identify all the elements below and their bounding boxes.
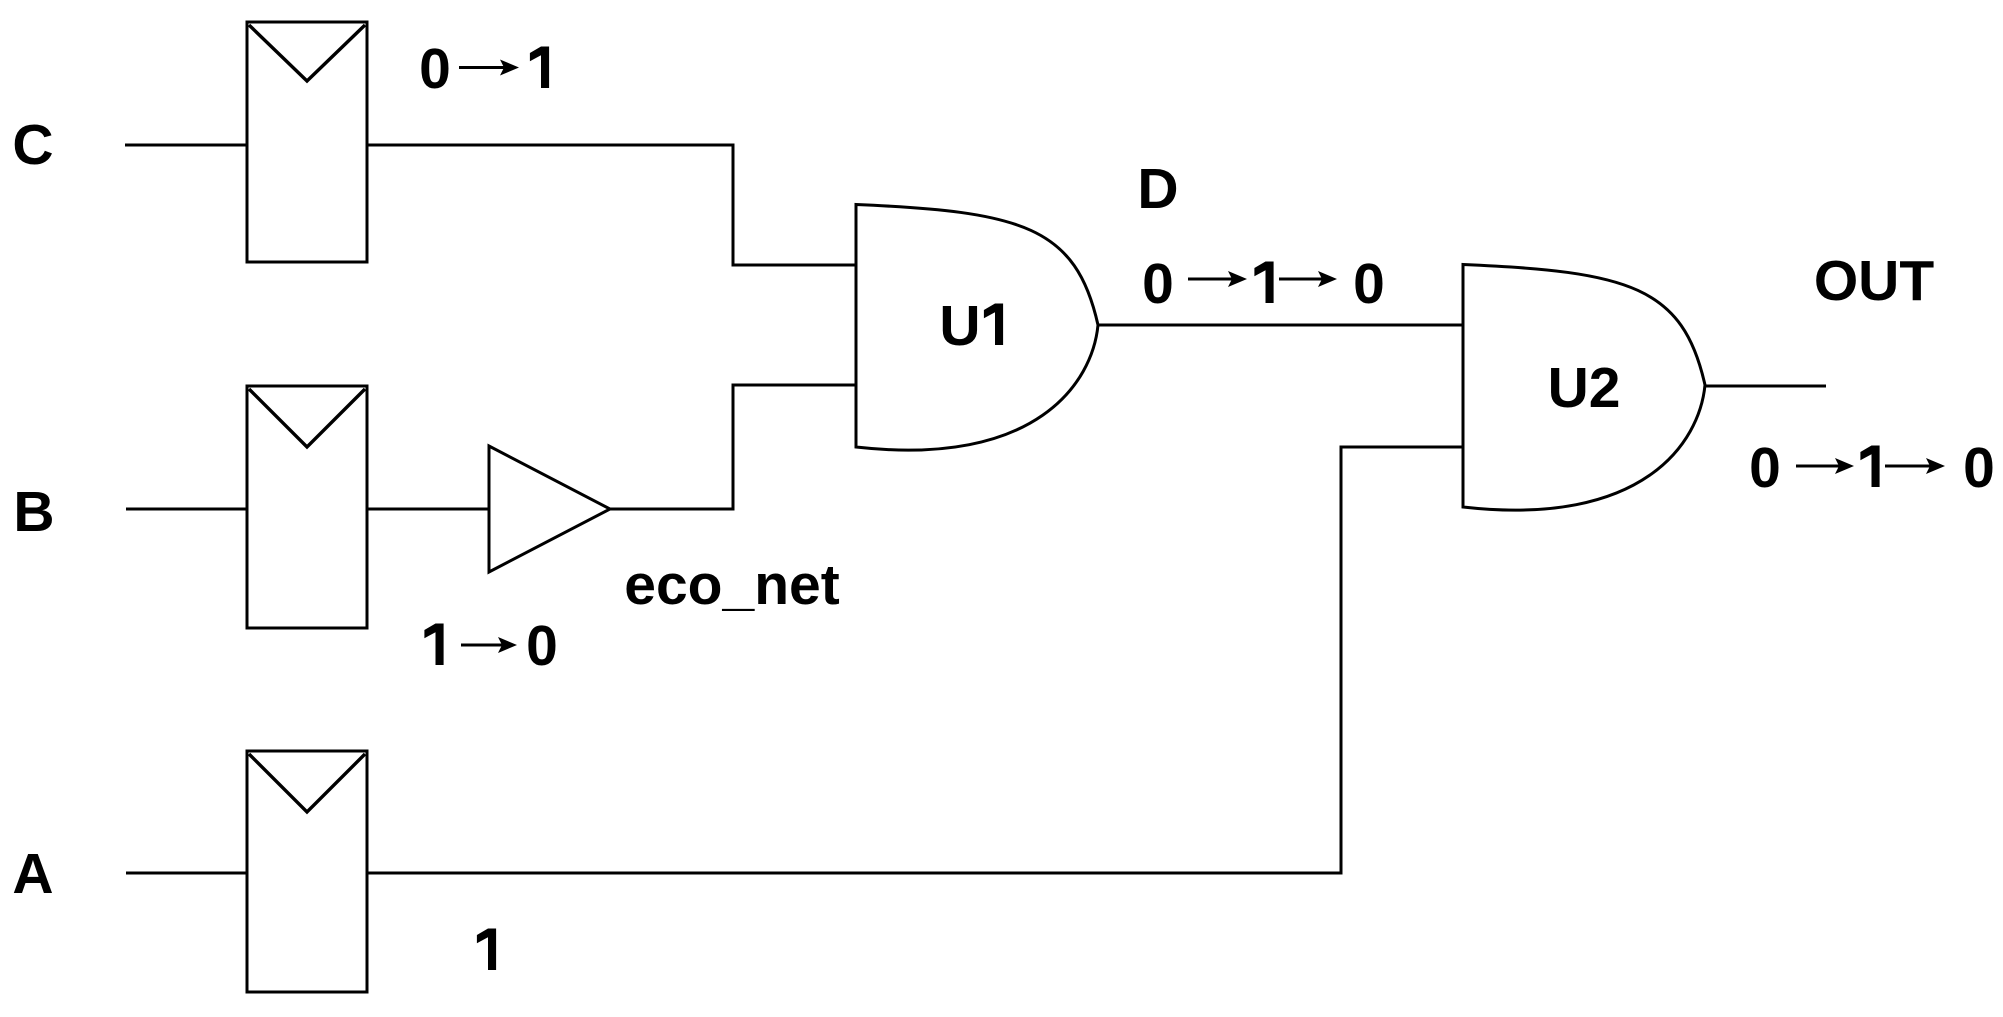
value label 1 on net A bbox=[477, 929, 496, 971]
svg-text:C: C bbox=[12, 113, 53, 177]
wire OUT from U2 output bbox=[1705, 385, 1826, 388]
buffer (ECO repeater) bbox=[489, 446, 610, 572]
wire B box to buffer bbox=[367, 508, 489, 511]
svg-text:B: B bbox=[13, 480, 54, 544]
input stimulus box B bbox=[247, 386, 367, 628]
wire C input bbox=[125, 144, 247, 147]
svg-text:OUT: OUT bbox=[1814, 249, 1935, 313]
wire A to U2 lower input bbox=[367, 447, 1463, 873]
svg-text:U: U bbox=[939, 294, 980, 358]
value label 0->1->0 on net D bbox=[1142, 252, 1385, 316]
and-gate U2 bbox=[1463, 265, 1705, 511]
label U1 bbox=[939, 294, 1003, 358]
input stimulus box A bbox=[247, 751, 367, 992]
svg-text:0: 0 bbox=[1353, 252, 1385, 316]
svg-text:eco_net: eco_net bbox=[624, 553, 839, 617]
svg-text:0: 0 bbox=[1963, 436, 1995, 500]
wire C to U1 upper input bbox=[367, 145, 856, 265]
svg-text:A: A bbox=[12, 842, 53, 906]
wire D from U1 output to U2 upper input bbox=[1098, 324, 1463, 327]
svg-text:0: 0 bbox=[526, 614, 558, 678]
value label 0->1->0 on net OUT bbox=[1749, 436, 1995, 500]
wire B input bbox=[126, 508, 247, 511]
svg-text:0: 0 bbox=[1749, 436, 1781, 500]
wire A input bbox=[126, 872, 247, 875]
wire eco_net buffer to U1 lower input bbox=[610, 385, 856, 509]
and-gate U1 bbox=[856, 205, 1098, 451]
svg-text:D: D bbox=[1137, 157, 1178, 221]
svg-text:0: 0 bbox=[1142, 252, 1174, 316]
input stimulus box C bbox=[247, 22, 367, 262]
svg-text:0: 0 bbox=[419, 37, 451, 101]
svg-text:U2: U2 bbox=[1548, 356, 1621, 420]
value label 0->1 on net C bbox=[419, 37, 549, 101]
value label 1->0 on net B bbox=[424, 614, 557, 678]
